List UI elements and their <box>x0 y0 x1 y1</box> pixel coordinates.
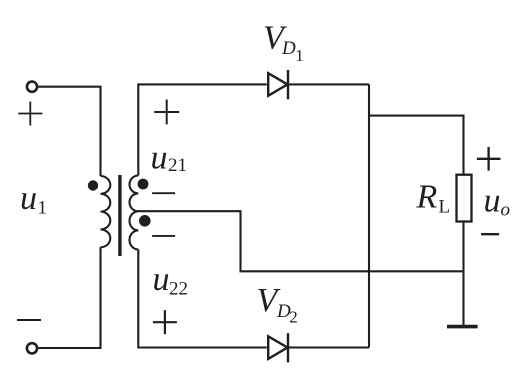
svg-text:L: L <box>439 197 451 218</box>
ground <box>447 325 478 329</box>
plus mark u22 <box>153 310 177 334</box>
transformer T primary winding <box>101 176 111 247</box>
minus mark u22 <box>152 235 175 237</box>
svg-text:22: 22 <box>169 279 188 300</box>
plus mark uo <box>477 147 501 171</box>
wire bottom-left: primary bottom to terminal <box>38 247 100 348</box>
polarity dot secondary u21 <box>138 179 149 190</box>
wire secondary top lead to diode VD1 anode <box>138 84 266 175</box>
resistor RL <box>457 175 472 222</box>
diode VD2 <box>268 333 288 362</box>
minus mark input <box>17 319 41 321</box>
wire branch to load resistor <box>369 116 464 175</box>
wire resistor bottom to ground <box>462 222 464 326</box>
polarity dot primary <box>88 180 98 190</box>
svg-text:u: u <box>151 139 168 176</box>
transformer T secondary winding u21 <box>130 176 139 212</box>
polarity dot secondary u22 <box>139 215 151 227</box>
svg-text:o: o <box>501 200 511 221</box>
transformer T secondary winding u22 <box>130 211 139 249</box>
svg-text:1: 1 <box>38 197 48 218</box>
terminal bottom-left <box>27 343 37 353</box>
svg-text:2: 2 <box>289 308 298 327</box>
svg-text:u: u <box>153 261 170 298</box>
svg-text:u: u <box>484 183 501 220</box>
svg-text:R: R <box>416 178 438 215</box>
svg-text:21: 21 <box>168 155 187 176</box>
svg-text:1: 1 <box>295 46 304 65</box>
minus mark uo <box>481 233 499 235</box>
plus mark input <box>18 102 42 126</box>
wire center tap to load bottom node <box>137 211 463 271</box>
wire top-left: terminal to primary top <box>38 87 100 176</box>
wire VD2 cathode to right vertical <box>287 346 369 348</box>
wire right vertical (diode outputs bus) <box>368 84 370 347</box>
svg-text:D: D <box>281 38 296 59</box>
wire secondary bottom lead to diode VD2 anode <box>138 250 266 348</box>
plus mark u21 <box>154 100 179 125</box>
wire VD1 cathode to right vertical <box>287 83 369 85</box>
diode VD1 <box>268 70 288 99</box>
terminal top-left <box>27 82 37 92</box>
svg-text:u: u <box>20 180 37 217</box>
transformer core <box>118 175 121 256</box>
minus mark u21 <box>152 192 175 194</box>
